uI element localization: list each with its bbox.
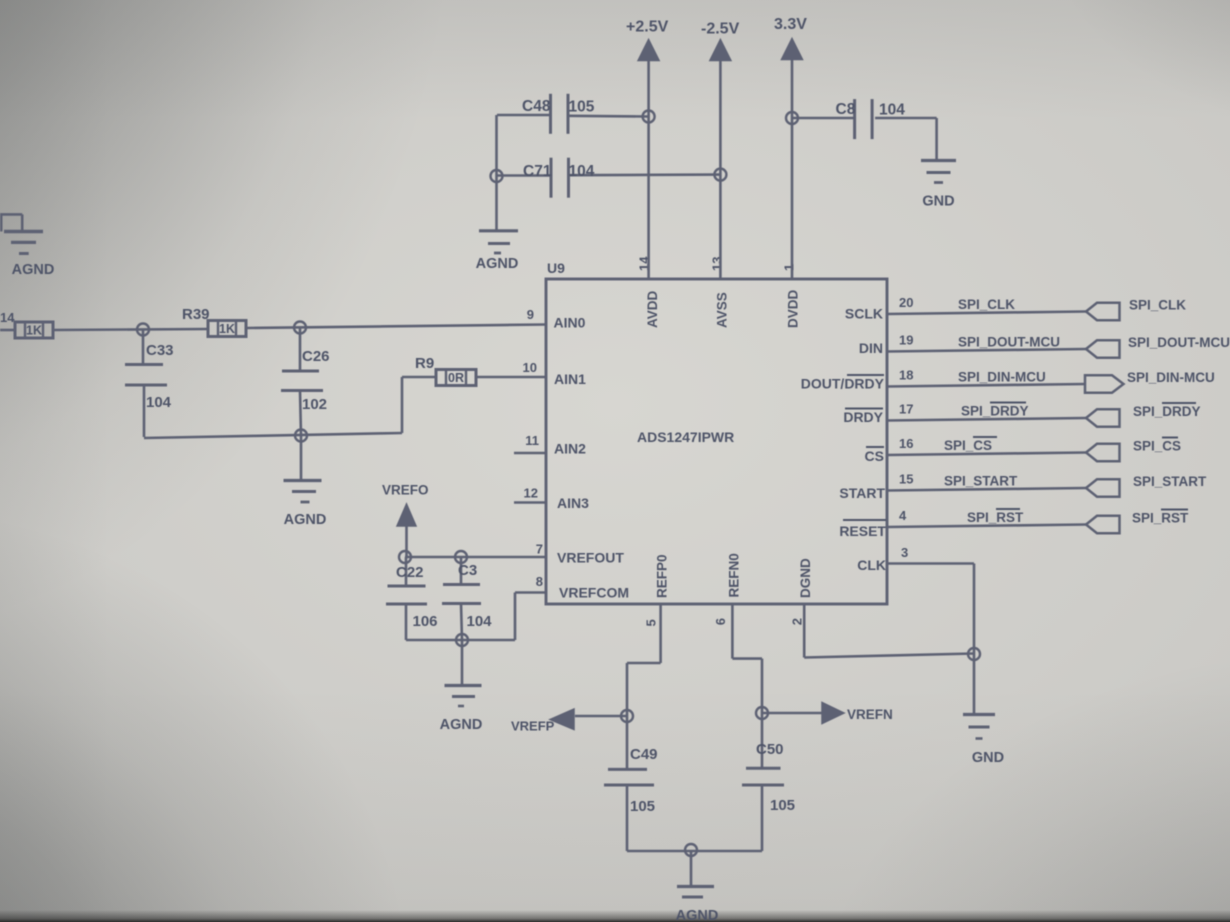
svg-text:AVDD: AVDD [645, 290, 660, 328]
svg-text:102: 102 [302, 396, 327, 413]
svg-text:1K: 1K [219, 322, 235, 336]
svg-text:RESET: RESET [839, 523, 886, 539]
svg-text:8: 8 [536, 574, 543, 589]
svg-text:AGND: AGND [284, 512, 327, 528]
svg-text:C3: C3 [458, 562, 477, 579]
svg-text:REFN0: REFN0 [726, 553, 741, 597]
svg-text:ADS1247IPWR: ADS1247IPWR [637, 429, 734, 445]
svg-text:105: 105 [569, 99, 595, 116]
svg-text:GND: GND [972, 750, 1004, 766]
svg-text:VREFP: VREFP [511, 719, 555, 734]
svg-text:SPI_START: SPI_START [1133, 474, 1207, 489]
svg-text:3.3V: 3.3V [774, 16, 807, 33]
svg-text:AGND: AGND [12, 262, 55, 278]
svg-text:REFP0: REFP0 [655, 554, 670, 598]
svg-text:DOUT/DRDY: DOUT/DRDY [801, 376, 885, 392]
svg-text:C22: C22 [396, 564, 424, 581]
svg-text:15: 15 [899, 472, 913, 487]
svg-text:C48: C48 [522, 98, 551, 115]
svg-text:104: 104 [146, 394, 172, 411]
svg-text:C50: C50 [756, 741, 784, 758]
svg-text:CLK: CLK [857, 557, 886, 573]
svg-text:R9: R9 [415, 355, 434, 372]
svg-text:DIN: DIN [859, 340, 883, 356]
svg-text:6: 6 [713, 618, 728, 625]
svg-text:18: 18 [899, 368, 913, 383]
svg-text:4: 4 [899, 508, 907, 523]
svg-text:19: 19 [899, 333, 913, 348]
svg-text:VREFN: VREFN [847, 707, 893, 722]
svg-text:DVDD: DVDD [786, 289, 801, 328]
svg-text:104: 104 [569, 163, 595, 180]
svg-text:104: 104 [467, 613, 493, 630]
svg-text:SPI_CS: SPI_CS [1133, 439, 1181, 454]
svg-text:VREFCOM: VREFCOM [559, 585, 629, 601]
svg-text:AGND: AGND [676, 908, 719, 922]
svg-text:SPI_DOUT-MCU: SPI_DOUT-MCU [1128, 335, 1230, 350]
svg-text:AIN1: AIN1 [554, 371, 586, 387]
svg-text:SPI_CS: SPI_CS [944, 438, 992, 453]
svg-text:+2.5V: +2.5V [626, 19, 669, 36]
svg-text:105: 105 [770, 797, 795, 814]
svg-text:AIN3: AIN3 [557, 495, 589, 511]
svg-text:1: 1 [782, 264, 797, 271]
svg-text:3: 3 [901, 545, 908, 560]
svg-text:-2.5V: -2.5V [701, 21, 740, 38]
svg-text:GND: GND [922, 194, 954, 210]
svg-text:13: 13 [710, 257, 725, 271]
svg-text:SPI_RST: SPI_RST [1132, 511, 1189, 526]
svg-text:10: 10 [523, 360, 537, 375]
svg-text:12: 12 [524, 486, 538, 501]
svg-text:7: 7 [536, 542, 543, 557]
svg-text:1K: 1K [26, 324, 42, 338]
svg-text:2: 2 [790, 618, 805, 625]
svg-text:14: 14 [0, 310, 15, 325]
svg-text:C49: C49 [630, 746, 658, 763]
svg-text:SPI_CLK: SPI_CLK [1129, 298, 1186, 313]
svg-text:START: START [839, 485, 885, 501]
svg-text:0R: 0R [448, 371, 464, 385]
svg-text:C26: C26 [302, 348, 330, 365]
svg-text:SPI_RST: SPI_RST [967, 510, 1024, 525]
svg-text:SPI_DIN-MCU: SPI_DIN-MCU [958, 370, 1046, 385]
svg-text:C33: C33 [146, 342, 174, 359]
svg-text:5: 5 [644, 619, 659, 626]
svg-text:AIN0: AIN0 [554, 315, 586, 331]
svg-text:U9: U9 [547, 260, 565, 276]
svg-text:20: 20 [899, 295, 913, 310]
svg-text:VREFOUT: VREFOUT [557, 550, 624, 566]
svg-text:C71: C71 [523, 163, 552, 180]
svg-text:11: 11 [525, 433, 539, 448]
svg-text:SPI_CLK: SPI_CLK [958, 297, 1015, 312]
svg-text:106: 106 [413, 613, 438, 630]
svg-text:105: 105 [630, 798, 655, 815]
svg-text:SPI_DRDY: SPI_DRDY [961, 404, 1029, 419]
svg-text:CS: CS [865, 448, 884, 464]
svg-text:16: 16 [899, 436, 913, 451]
svg-text:DGND: DGND [798, 558, 813, 598]
svg-text:C8: C8 [836, 101, 856, 118]
svg-text:AVSS: AVSS [714, 292, 729, 328]
svg-text:SCLK: SCLK [845, 306, 883, 322]
svg-text:AGND: AGND [440, 717, 483, 733]
svg-text:AIN2: AIN2 [554, 441, 586, 457]
svg-text:SPI_DRDY: SPI_DRDY [1133, 404, 1201, 419]
svg-text:SPI_DIN-MCU: SPI_DIN-MCU [1127, 370, 1215, 385]
svg-text:SPI_START: SPI_START [944, 474, 1018, 489]
svg-text:VREFO: VREFO [382, 483, 429, 498]
svg-text:9: 9 [527, 307, 534, 322]
svg-text:R39: R39 [182, 306, 210, 323]
svg-text:104: 104 [879, 102, 905, 119]
svg-text:17: 17 [899, 402, 913, 417]
svg-text:DRDY: DRDY [843, 409, 883, 425]
svg-text:SPI_DOUT-MCU: SPI_DOUT-MCU [958, 335, 1060, 350]
svg-text:AGND: AGND [476, 256, 519, 272]
